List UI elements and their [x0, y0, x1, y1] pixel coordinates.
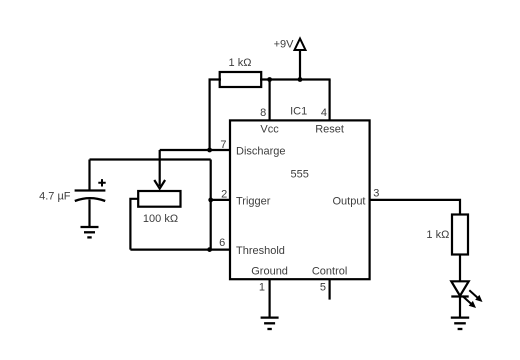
svg-text:Output: Output — [332, 196, 365, 208]
Trigger pin name — [236, 196, 271, 208]
svg-text:Reset: Reset — [315, 123, 344, 135]
value label 1 kΩ (R1) — [229, 57, 252, 69]
ground (pin 1) — [261, 318, 279, 329]
svg-text:1 kΩ: 1 kΩ — [426, 229, 449, 241]
svg-text:IC1: IC1 — [290, 106, 307, 118]
node junction discharge / R1 — [207, 148, 212, 153]
resistor R3 1 kΩ (vertical) — [452, 215, 468, 255]
pin 1 number — [259, 282, 265, 294]
value label 100 kΩ — [143, 213, 178, 225]
svg-text:5: 5 — [320, 282, 326, 294]
capacitor C1 4.7 µF (polarized) — [75, 179, 106, 201]
wire cap to ground — [88, 200, 90, 228]
svg-text:Control: Control — [312, 266, 347, 278]
Control pin name — [312, 266, 347, 278]
svg-text:555: 555 — [291, 169, 309, 181]
power +9V supply arrow — [295, 39, 306, 80]
svg-text:8: 8 — [260, 107, 266, 119]
value label 1 kΩ (R3) — [426, 229, 449, 241]
svg-text:Vcc: Vcc — [260, 123, 279, 135]
value label +9V — [274, 39, 295, 51]
Discharge pin name — [236, 146, 286, 158]
node junction R1/pin8 — [267, 77, 272, 82]
Threshold pin name — [236, 245, 285, 257]
Output pin name — [332, 196, 365, 208]
svg-text:6: 6 — [219, 237, 225, 249]
wire capacitor top line — [90, 158, 211, 160]
svg-text:4.7 µF: 4.7 µF — [39, 191, 71, 203]
wire pot left lead down — [130, 199, 138, 250]
svg-text:Threshold: Threshold — [236, 245, 285, 257]
Vcc pin name — [260, 123, 279, 135]
svg-text:1 kΩ: 1 kΩ — [229, 57, 252, 69]
wiper arrowhead — [154, 180, 165, 189]
node junction trigger — [208, 198, 213, 203]
555 part label — [291, 169, 309, 181]
Reset pin name — [315, 123, 344, 135]
svg-text:Ground: Ground — [251, 266, 288, 278]
wire wiper stem to potentiometer — [159, 150, 161, 186]
svg-text:2: 2 — [221, 188, 227, 200]
Ground pin name — [251, 266, 288, 278]
wire threshold line (pin 6) — [130, 249, 229, 251]
wire LED to ground — [459, 297, 461, 318]
svg-text:1: 1 — [259, 282, 265, 294]
IC1 reference label — [290, 106, 307, 118]
wire pin 3 output run — [370, 200, 461, 215]
svg-text:+9V: +9V — [274, 39, 295, 51]
resistor R1 1 kΩ — [220, 72, 262, 87]
pin 4 number — [321, 107, 327, 119]
ground (LED) — [451, 318, 469, 329]
wire trigger line (pin 2) — [211, 199, 229, 201]
ground (capacitor) — [81, 227, 99, 237]
wire top rail from R1 to pin4 corner — [260, 78, 331, 80]
wire pin 4 drop — [329, 80, 331, 122]
pin 8 number — [260, 107, 266, 119]
svg-text:Trigger: Trigger — [236, 196, 271, 208]
pin 2 number — [221, 188, 227, 200]
svg-text:3: 3 — [373, 187, 379, 199]
potentiometer R2 100 kΩ body — [138, 191, 180, 207]
svg-text:4: 4 — [321, 107, 327, 119]
node junction threshold — [207, 247, 212, 252]
wire cap drop — [88, 160, 90, 191]
pin 5 number — [320, 282, 326, 294]
value label 4.7 µF — [39, 191, 71, 203]
wire R3 to LED — [459, 255, 461, 282]
wire pin 1 to ground — [269, 279, 271, 318]
wire pin 8 drop — [269, 80, 271, 122]
svg-text:100 kΩ: 100 kΩ — [143, 213, 178, 225]
pin 7 number — [220, 139, 226, 151]
wire trigger/threshold vertical link — [210, 160, 212, 250]
op-amp/IC U1 555 timer body — [230, 120, 370, 279]
wire pin 7 discharge line — [160, 149, 229, 151]
node junction +9V feed — [298, 77, 303, 82]
pin 3 number — [373, 187, 379, 199]
wire pin 5 stub — [329, 279, 331, 300]
wire R1 left lead down to discharge node — [210, 80, 221, 151]
LED D1 — [451, 281, 482, 308]
pin 6 number — [219, 237, 225, 249]
svg-text:Discharge: Discharge — [236, 146, 286, 158]
